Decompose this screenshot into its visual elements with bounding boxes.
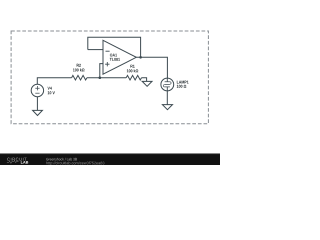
node A junction dot [99,76,102,79]
footer black bar [0,154,220,165]
label R1 value [127,69,138,72]
resistor R1 zigzag [126,75,141,80]
wire op-amp inverting input [88,49,103,51]
V4 minus polarity marker [35,92,39,94]
logo waveform squiggle [7,161,19,164]
V4 plus polarity marker [35,86,39,90]
label OA1 name [110,54,117,57]
ground symbol below V4 [33,110,43,115]
lamp terminal stubs [166,78,168,91]
label R2 value [73,68,84,71]
op-amp OA1 triangle body [103,40,136,74]
wire feedback loop from inverting input over op-amp to output node [88,37,141,57]
wire lamp bottom to ground [166,91,168,105]
label V4 value [48,91,55,94]
lamp filament bars [165,82,170,87]
wire from R2 right side to R1 left side through node A [87,77,126,79]
ground symbol below LAMP1 [162,105,172,110]
label OA1 value [110,58,120,61]
wire op-amp output to lamp top [136,57,167,78]
footer attribution line 2 [46,162,104,166]
lamp filament end curls [163,82,171,87]
op-amp non-inverting input plus marker [105,62,109,66]
op-amp inverting input minus marker [106,50,110,52]
label R2 name [77,64,81,67]
voltage source V4 circle [31,84,43,96]
footer attribution line 1 [46,158,77,161]
wire node A riser to op-amp non-inverting input [100,64,103,78]
schematic dashed border frame [11,31,208,124]
label R1 name [130,65,134,68]
logo text CIRCUIT [7,158,26,161]
wire from V4 positive terminal up and right to R2 [37,78,71,85]
ground symbol right of R1 [142,81,152,86]
logo text LAB [21,161,28,164]
wire R1 right side to ground [142,78,147,82]
label LAMP1 name [177,81,189,84]
output node junction dot [139,56,142,59]
lamp LAMP1 circle [161,78,174,91]
label LAMP1 value [177,85,186,88]
label V4 name [48,87,52,90]
wire V4 negative terminal to ground [36,97,38,111]
resistor R2 zigzag [72,75,87,80]
